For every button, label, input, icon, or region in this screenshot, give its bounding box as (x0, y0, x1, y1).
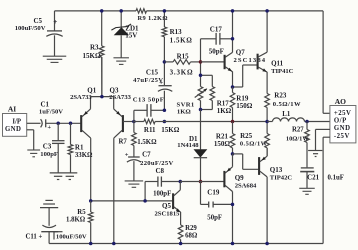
svg-text:Q13: Q13 (270, 166, 283, 174)
transistor Q3 (122, 115, 124, 132)
transistor Q1 (80, 115, 82, 132)
node R13 rail (163, 9, 167, 13)
svg-text:C13 50pF: C13 50pF (133, 97, 165, 104)
node Q3 base (132, 120, 136, 124)
svg-text:R3: R3 (90, 44, 99, 52)
node C17/Q7 collector (231, 37, 235, 41)
wire bias to D1 (200, 110, 202, 150)
resistor R25 (266, 122, 268, 134)
variable resistor SVR1 (200, 75, 202, 86)
resistor R9 (136, 9, 147, 13)
svg-text:15KΩ: 15KΩ (83, 52, 101, 60)
node R13 line / bus (163, 120, 167, 124)
svg-text:R11: R11 (144, 126, 156, 134)
svg-text:R13: R13 (170, 28, 183, 36)
capacitor C5 (54, 11, 56, 31)
svg-text:Q11: Q11 (271, 60, 284, 68)
node C8 left (143, 199, 147, 203)
svg-text:+: + (159, 79, 163, 87)
svg-text:150Ω: 150Ω (236, 102, 253, 110)
svg-text:O/P: O/P (334, 118, 347, 125)
svg-text:0.1uF: 0.1uF (328, 175, 344, 182)
svg-text:R29: R29 (185, 225, 197, 232)
wire AO -25V (323, 136, 330, 138)
resistor R3 (101, 11, 103, 46)
ground (under ZD1) (113, 57, 129, 59)
node L1 / R27 output (305, 120, 309, 124)
svg-text:1.5KΩ: 1.5KΩ (137, 139, 157, 146)
svg-text:100pF: 100pF (40, 151, 58, 158)
svg-text:1uF/50V: 1uF/50V (39, 109, 63, 116)
wire input GND (27, 129, 34, 131)
svg-text:C19: C19 (207, 189, 220, 197)
node R29 rail (179, 242, 183, 246)
transistor Q7 (201, 61, 225, 63)
svg-text:I/P: I/P (12, 119, 21, 126)
resistor R23 (266, 72, 268, 94)
capacitor C3 (57, 123, 59, 140)
resistor R7 (133, 122, 135, 133)
resistor R1 (70, 123, 72, 144)
svg-text:R27: R27 (292, 127, 304, 134)
node Q11 top rail (265, 9, 269, 13)
svg-text:1.8KΩ: 1.8KΩ (66, 217, 86, 224)
capacitor C7 (128, 156, 140, 158)
capacitor C21 (306, 151, 308, 168)
svg-text:C15: C15 (146, 69, 159, 77)
svg-text:Q7: Q7 (236, 48, 245, 56)
svg-text:-25V: -25V (334, 133, 350, 140)
node ZD1 rail (119, 9, 123, 13)
svg-text:+25V: +25V (334, 110, 352, 117)
node Q9 collector rail (231, 242, 235, 246)
svg-text:Q5: Q5 (162, 202, 171, 210)
resistor R5 (90, 201, 92, 212)
wire AO GND (316, 128, 330, 130)
diode D1 (200, 148, 202, 150)
svg-text:100uF/50V: 100uF/50V (15, 25, 46, 32)
resistor R27 (306, 122, 308, 130)
svg-text:C17: C17 (210, 26, 223, 34)
node Q5 collector (179, 180, 183, 184)
capacitor C11 (45, 199, 52, 201)
svg-text:2SC1815: 2SC1815 (155, 211, 181, 218)
resistor R21 (232, 122, 234, 134)
node Q13 collector rail (265, 242, 269, 246)
input connector AI (3, 114, 27, 137)
svg-text:L1: L1 (282, 111, 291, 118)
svg-text:TIP42C: TIP42C (270, 175, 293, 182)
node R23/R25 bus (265, 120, 269, 124)
svg-text:C21: C21 (307, 174, 320, 182)
svg-text:R25: R25 (240, 132, 253, 140)
node R21/Q9/Q13 base (231, 152, 235, 156)
svg-text:C7: C7 (142, 151, 151, 159)
svg-text:50pF: 50pF (209, 48, 224, 56)
svg-text:R5: R5 (77, 209, 86, 216)
resistor R29 (178, 225, 183, 240)
ground (under C7) (125, 180, 143, 182)
svg-text:150Ω: 150Ω (214, 140, 231, 148)
svg-text:AO: AO (335, 97, 346, 106)
ground (under C5) (43, 55, 67, 57)
wire bias chain (200, 39, 202, 62)
node Q3 collector rail (112, 242, 116, 246)
svg-text:C8: C8 (156, 167, 165, 175)
inductor L1 (273, 118, 305, 122)
node C3 tap (56, 122, 60, 126)
capacitor C19 (200, 182, 202, 205)
node Q7 top rail (231, 9, 235, 13)
svg-text:1.5KΩ: 1.5KΩ (170, 37, 193, 45)
node R13/R15/C15 (163, 60, 167, 64)
svg-text:1KΩ: 1KΩ (217, 107, 232, 115)
svg-text:+: + (53, 17, 57, 26)
svg-text:GND: GND (334, 125, 351, 132)
svg-text:GND: GND (5, 126, 21, 133)
svg-text:15V: 15V (125, 31, 137, 39)
resistor R11 (feedback) (134, 121, 144, 123)
transistor Q5 (172, 193, 174, 209)
capacitor C17 (201, 38, 216, 40)
resistor R17 (201, 74, 213, 76)
svg-text:3.3KΩ: 3.3KΩ (170, 69, 194, 77)
svg-text:2SA733: 2SA733 (109, 94, 131, 101)
node R15/C17/Q7 base (199, 60, 203, 64)
resistor R19 (232, 87, 234, 93)
svg-text:1KΩ: 1KΩ (177, 109, 192, 116)
svg-text:+: + (125, 151, 129, 158)
svg-text:R1: R1 (75, 144, 84, 152)
resistor R15 (164, 61, 173, 63)
wire output bus (164, 121, 232, 123)
svg-text:C3: C3 (43, 143, 52, 151)
output connector AO (330, 106, 356, 143)
svg-text:2SA684: 2SA684 (235, 183, 257, 190)
node C13/C15 (163, 109, 167, 113)
svg-text:0.5Ω/1W: 0.5Ω/1W (240, 140, 268, 147)
node C19 right / Q9 collector (231, 203, 235, 207)
svg-text:100pF: 100pF (153, 191, 171, 198)
svg-text:TIP41C: TIP41C (271, 68, 294, 75)
svg-text:C1: C1 (41, 101, 50, 109)
svg-text:68Ω: 68Ω (185, 233, 198, 240)
zener ZD1 (120, 11, 122, 28)
svg-text:R23: R23 (274, 92, 287, 100)
wire +V top rail (55, 10, 137, 12)
svg-text:50pF: 50pF (207, 215, 222, 222)
transistor Q11 (233, 86, 243, 88)
wire Q1 collector to Q5 base (91, 200, 173, 202)
svg-text:R15: R15 (177, 53, 190, 61)
node Q1 collector / R5 (89, 199, 93, 203)
svg-text:2SA733: 2SA733 (70, 94, 92, 101)
svg-text:100uF/50V: 100uF/50V (56, 234, 87, 241)
ground (C3/R1) (50, 172, 78, 174)
svg-text:R9 1.2KΩ: R9 1.2KΩ (138, 15, 168, 22)
ground (input) (27, 149, 40, 151)
node SVR1/R17 bottom (199, 108, 203, 112)
svg-text:C11 +: C11 + (26, 234, 43, 241)
transistor Q9 (223, 171, 225, 187)
node emitters (100, 95, 104, 99)
node output bus / R19/R21 (231, 120, 235, 124)
ground (R27/AO GND) (308, 150, 322, 152)
svg-text:15KΩ: 15KΩ (161, 126, 179, 134)
wire -V bottom rail (49, 243, 323, 245)
svg-text:Q9: Q9 (235, 174, 244, 182)
svg-text:2SC1384: 2SC1384 (234, 57, 267, 64)
svg-text:C5: C5 (34, 17, 43, 25)
transistor Q13 (233, 153, 243, 155)
node R5 rail (89, 242, 93, 246)
resistor R13 (163, 11, 165, 27)
svg-text:SVR1: SVR1 (177, 102, 195, 109)
wire Q5 base line (180, 181, 200, 183)
svg-text:+: + (47, 124, 51, 131)
svg-text:0.5Ω/1W: 0.5Ω/1W (273, 101, 301, 108)
node D1/Q5/Q9 (bias bottom) (199, 180, 203, 184)
node Q7 emitter / Q11 base / R19 (231, 85, 235, 89)
capacitor C1 (27, 122, 41, 124)
node SVR1/R17 top (199, 74, 203, 78)
capacitor C13 (133, 110, 135, 121)
node R1 tap (69, 122, 73, 126)
svg-text:R7: R7 (119, 138, 128, 145)
svg-text:1N4148: 1N4148 (177, 142, 199, 149)
capacitor C15 (163, 62, 165, 85)
wire emitters common (91, 96, 114, 98)
ground (under C21) (299, 187, 315, 189)
capacitor C8 (144, 182, 146, 201)
node R3 rail (100, 9, 104, 13)
svg-text:10Ω/1W: 10Ω/1W (286, 135, 309, 142)
svg-text:AI: AI (8, 105, 16, 114)
